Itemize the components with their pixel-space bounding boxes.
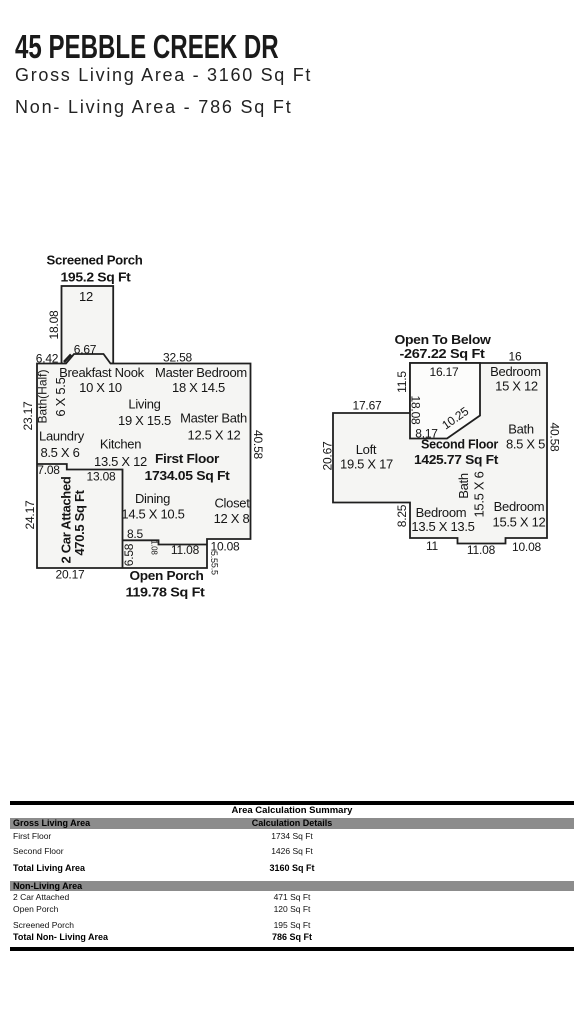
svg-text:Bedroom: Bedroom — [494, 499, 545, 514]
svg-text:Kitchen: Kitchen — [100, 437, 141, 452]
svg-text:First Floor: First Floor — [155, 452, 219, 466]
svg-text:Laundry: Laundry — [39, 429, 85, 444]
svg-text:1.08: 1.08 — [150, 540, 159, 556]
svg-text:19 X 15.5: 19 X 15.5 — [118, 413, 171, 428]
svg-text:5.5: 5.5 — [209, 551, 219, 563]
svg-text:10.08: 10.08 — [512, 540, 542, 554]
svg-text:15.5 X 6: 15.5 X 6 — [472, 471, 487, 517]
svg-text:1734.05 Sq Ft: 1734.05 Sq Ft — [145, 469, 231, 483]
svg-text:11.08: 11.08 — [171, 543, 200, 557]
svg-text:20.17: 20.17 — [55, 567, 85, 581]
svg-text:Bedroom: Bedroom — [490, 364, 541, 379]
svg-text:Breakfast Nook: Breakfast Nook — [59, 365, 144, 380]
svg-text:7.08: 7.08 — [37, 463, 60, 477]
svg-text:14.5 X 10.5: 14.5 X 10.5 — [121, 507, 184, 522]
svg-text:Second Floor: Second Floor — [421, 438, 498, 452]
svg-text:15 X 12: 15 X 12 — [495, 379, 538, 394]
svg-text:32.58: 32.58 — [163, 351, 193, 365]
svg-text:16: 16 — [509, 350, 522, 364]
svg-text:Open Porch: Open Porch — [130, 569, 204, 583]
svg-text:195.2 Sq Ft: 195.2 Sq Ft — [61, 271, 132, 285]
svg-text:Bath: Bath — [456, 473, 471, 499]
svg-text:-267.22 Sq Ft: -267.22 Sq Ft — [400, 347, 486, 361]
svg-text:Bedroom: Bedroom — [416, 505, 467, 520]
svg-text:Loft: Loft — [356, 442, 377, 457]
svg-text:13.5 X 13.5: 13.5 X 13.5 — [411, 519, 474, 534]
svg-text:Open To Below: Open To Below — [395, 333, 492, 347]
svg-text:1425.77 Sq Ft: 1425.77 Sq Ft — [414, 453, 499, 467]
svg-text:Closet: Closet — [214, 496, 250, 511]
svg-text:11.08: 11.08 — [467, 543, 496, 557]
svg-text:12: 12 — [79, 289, 93, 304]
svg-text:15.5 X 12: 15.5 X 12 — [493, 515, 546, 530]
svg-text:Bath(Half): Bath(Half) — [36, 369, 50, 423]
svg-text:11.5: 11.5 — [395, 371, 409, 393]
svg-text:470.5 Sq Ft: 470.5 Sq Ft — [72, 489, 87, 555]
svg-text:Living: Living — [128, 397, 160, 412]
svg-text:Master Bath: Master Bath — [180, 411, 247, 426]
svg-text:17.67: 17.67 — [352, 399, 382, 413]
svg-text:119.78 Sq Ft: 119.78 Sq Ft — [126, 586, 206, 600]
svg-text:18 X 14.5: 18 X 14.5 — [172, 380, 225, 395]
svg-text:6.42: 6.42 — [36, 352, 59, 366]
svg-text:6.67: 6.67 — [74, 343, 97, 357]
svg-text:13.5 X 12: 13.5 X 12 — [94, 454, 147, 469]
svg-text:Master Bedroom: Master Bedroom — [155, 365, 247, 380]
svg-text:6 X 5.5: 6 X 5.5 — [53, 377, 68, 416]
svg-text:11: 11 — [426, 539, 439, 553]
svg-text:23.17: 23.17 — [21, 401, 35, 431]
svg-text:Dining: Dining — [135, 491, 170, 506]
svg-text:12 X 8: 12 X 8 — [214, 511, 250, 526]
svg-text:13.08: 13.08 — [86, 470, 116, 484]
svg-text:40.58: 40.58 — [548, 422, 562, 452]
svg-text:20.67: 20.67 — [321, 441, 335, 471]
svg-text:19.5 X 17: 19.5 X 17 — [340, 457, 393, 472]
svg-text:40.58: 40.58 — [251, 430, 265, 460]
svg-text:6.58: 6.58 — [122, 543, 136, 566]
svg-text:Screened Porch: Screened Porch — [47, 254, 143, 268]
svg-text:16.17: 16.17 — [429, 365, 459, 379]
svg-text:8.5: 8.5 — [127, 527, 144, 541]
svg-text:8.5 X 6: 8.5 X 6 — [40, 445, 79, 460]
svg-text:24.17: 24.17 — [23, 500, 37, 530]
svg-text:10 X 10: 10 X 10 — [79, 380, 122, 395]
svg-text:18.08: 18.08 — [47, 310, 61, 340]
svg-text:8.5 X 5: 8.5 X 5 — [506, 437, 545, 452]
svg-text:18.08: 18.08 — [409, 395, 423, 425]
svg-text:12.5 X 12: 12.5 X 12 — [188, 428, 241, 443]
svg-text:Bath: Bath — [508, 422, 534, 437]
svg-text:8.25: 8.25 — [395, 504, 409, 527]
svg-text:5.5: 5.5 — [210, 563, 220, 575]
